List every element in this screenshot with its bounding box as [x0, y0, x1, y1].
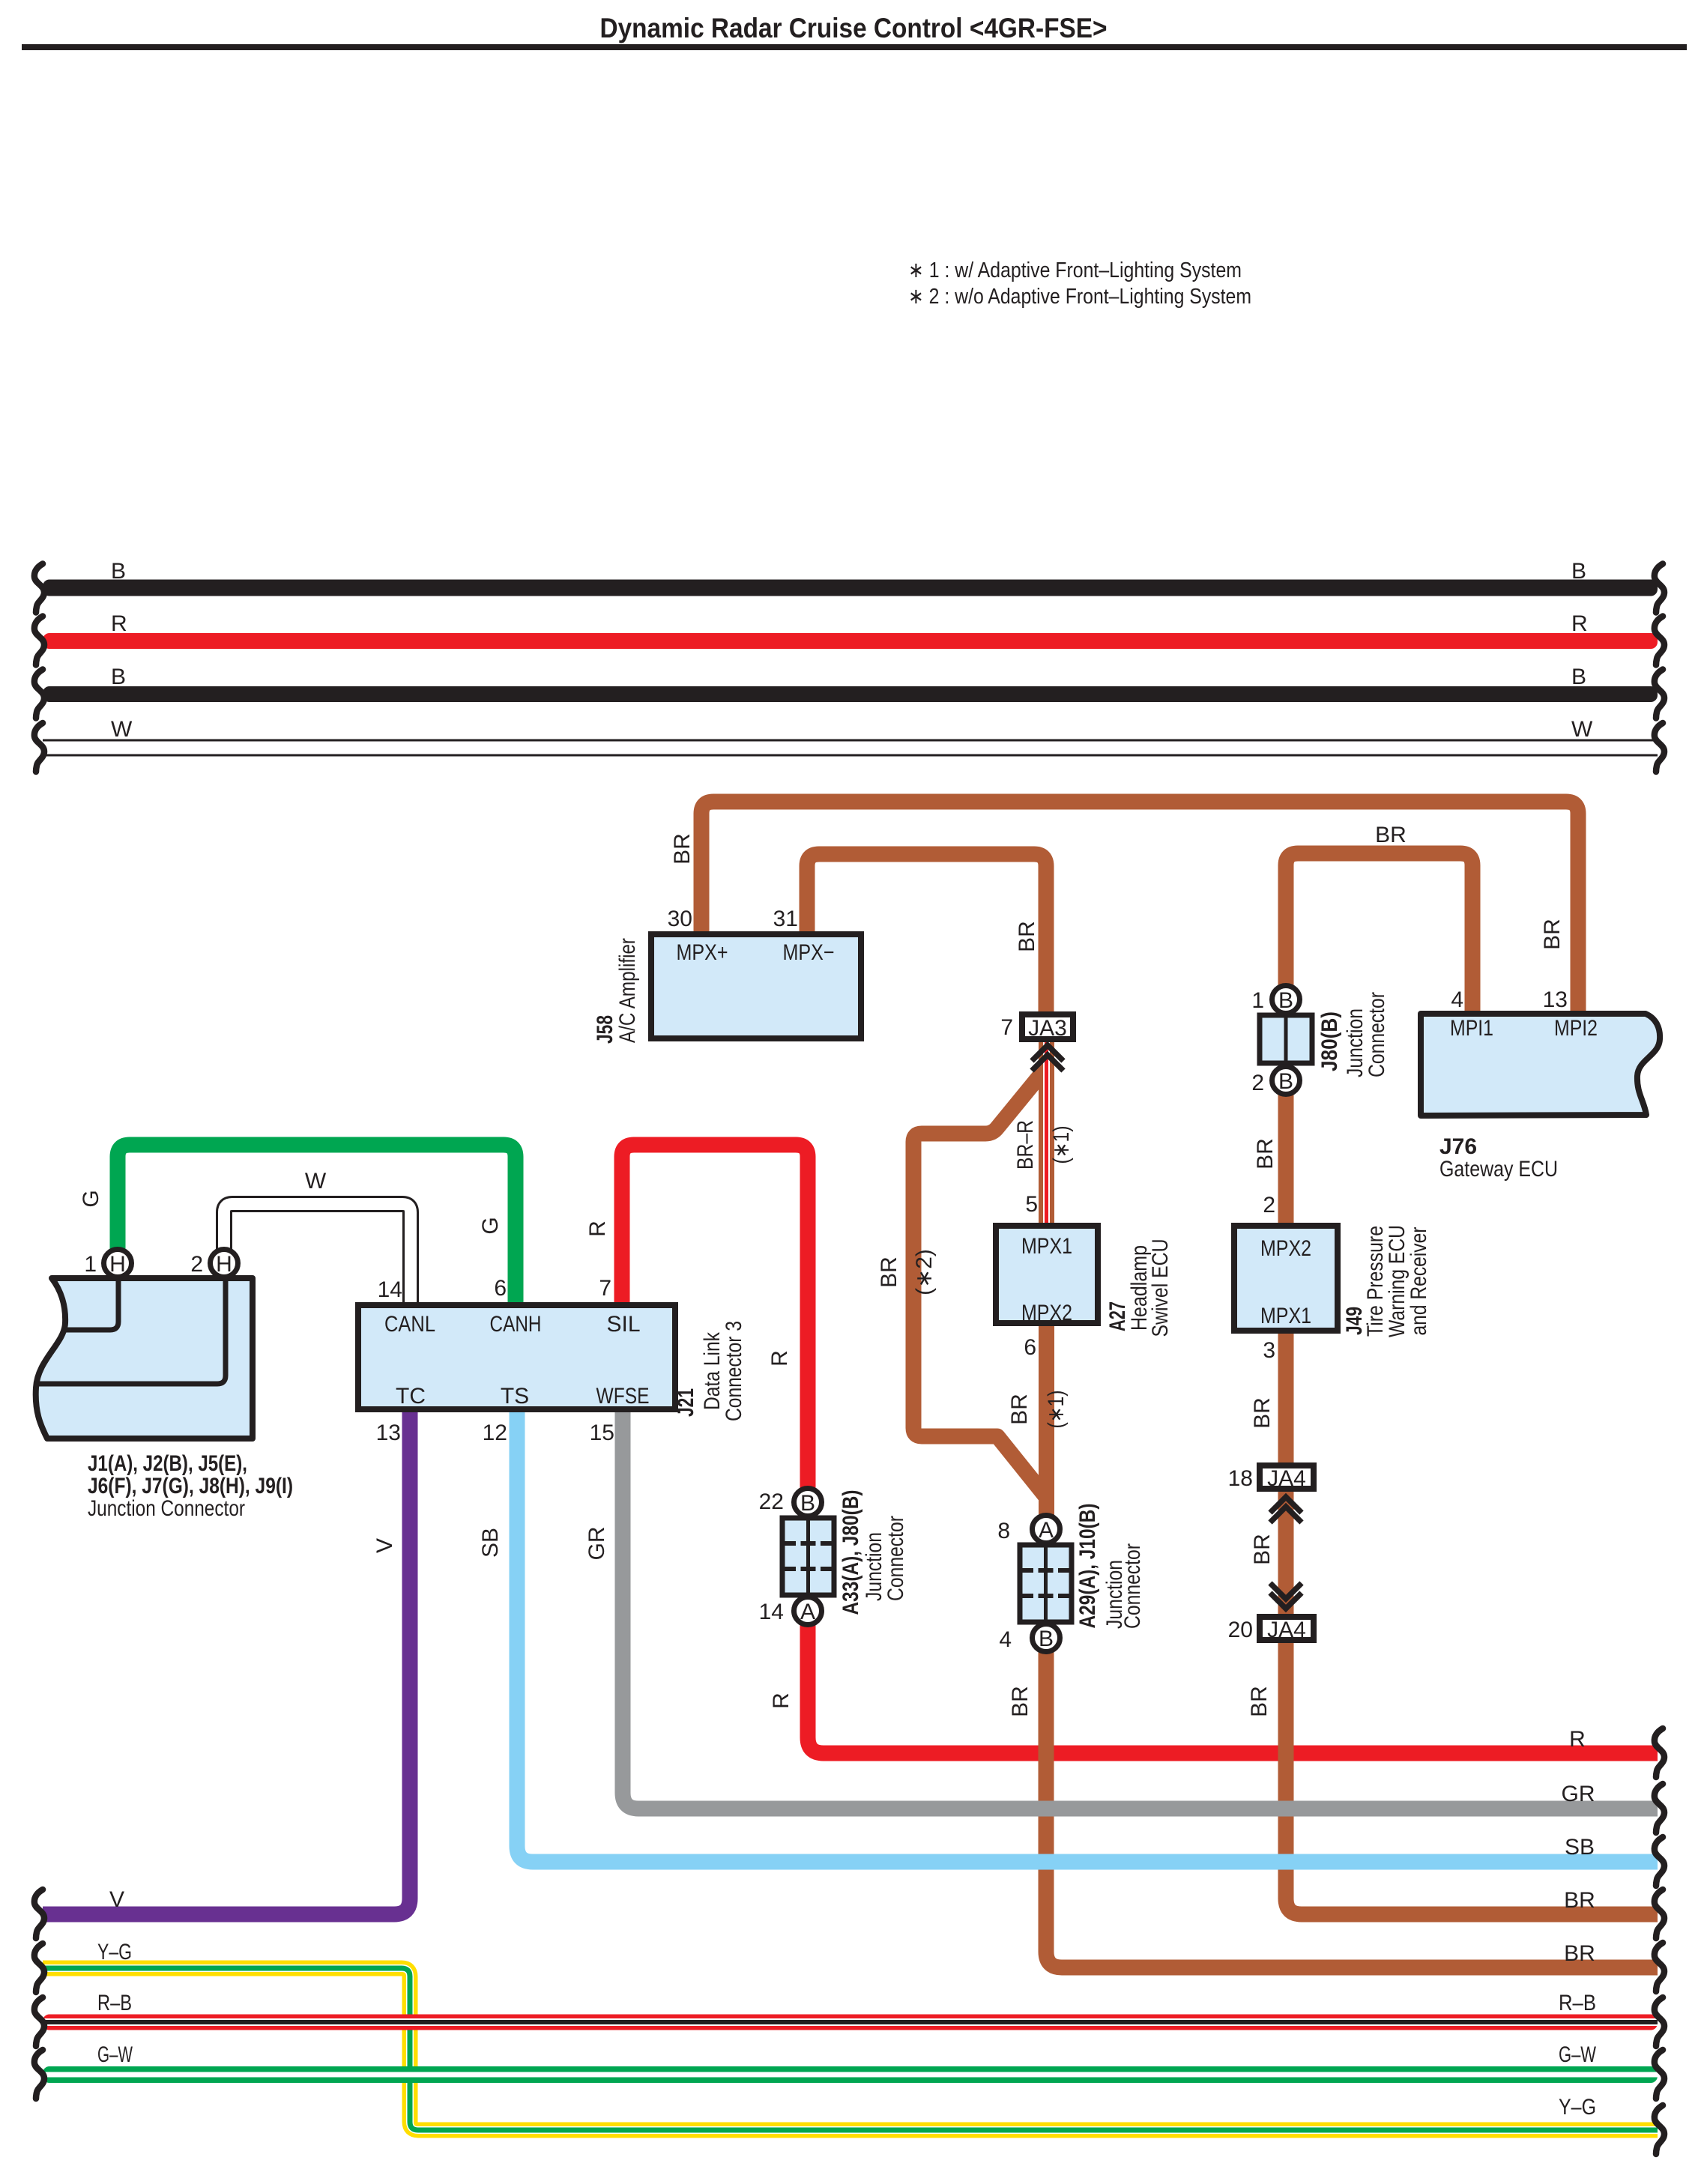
wire G J1 pin1 to J21 CANH pin6	[79, 1145, 516, 1304]
svg-text:H: H	[216, 1252, 232, 1277]
svg-text:CANH: CANH	[490, 1312, 542, 1337]
svg-text:BR: BR	[1250, 1397, 1275, 1429]
wire BR J80 pin2 to J49 MPX2 pin2	[1253, 1083, 1294, 1225]
svg-text:∗ 1 : w/ Adaptive Front–Lighti: ∗ 1 : w/ Adaptive Front–Lighting System	[908, 258, 1242, 282]
svg-text:13: 13	[1543, 987, 1568, 1012]
svg-text:B: B	[800, 1491, 815, 1516]
svg-text:B: B	[111, 559, 126, 584]
svg-text:5: 5	[1025, 1192, 1038, 1217]
wire BR JA4 20 to right edge	[1247, 1641, 1664, 1938]
svg-text:WFSE: WFSE	[596, 1384, 650, 1409]
svg-text:Connector: Connector	[1120, 1543, 1145, 1629]
wire Y-G left edge jog to right edge	[34, 1940, 1664, 2154]
svg-text:1: 1	[84, 1252, 97, 1277]
svg-text:BR: BR	[1375, 823, 1407, 847]
svg-text:MPX2: MPX2	[1260, 1236, 1311, 1261]
junction connector A33(A) J80(B)	[759, 1489, 908, 1625]
svg-text:A33(A), J80(B): A33(A), J80(B)	[839, 1490, 863, 1615]
wire BR J58 pin31 to JA3 pin7	[773, 854, 1046, 1013]
svg-text:31: 31	[773, 907, 798, 931]
wire R J21 SIL pin7 via A33 to right edge	[585, 1145, 1664, 1777]
svg-text:BR: BR	[1007, 1394, 1032, 1425]
svg-text:JA3: JA3	[1028, 1016, 1067, 1041]
svg-text:BR: BR	[877, 1256, 901, 1288]
svg-text:2: 2	[1263, 1193, 1275, 1217]
svg-text:R: R	[1569, 1727, 1586, 1752]
svg-text:W: W	[1571, 717, 1593, 742]
chevron shield JA3	[1032, 1045, 1063, 1071]
svg-text:R: R	[767, 1350, 792, 1367]
wire BR-R JA3 to A27 MPX1 pin5 (*1)	[1013, 1042, 1074, 1224]
ECU A27 Headlamp Swivel ECU	[996, 1226, 1173, 1337]
svg-text:BR: BR	[670, 833, 695, 865]
svg-text:2: 2	[1251, 1071, 1264, 1095]
svg-text:R: R	[111, 611, 127, 636]
svg-text:R: R	[585, 1220, 610, 1237]
wire B top bus 3	[34, 665, 1664, 719]
svg-text:BR: BR	[1250, 1534, 1275, 1565]
svg-text:MPX−: MPX−	[783, 940, 835, 965]
svg-text:20: 20	[1228, 1618, 1253, 1642]
svg-text:R–B: R–B	[97, 1991, 132, 2015]
chevron shield above JA4 20	[1270, 1583, 1302, 1609]
svg-text:7: 7	[599, 1276, 611, 1301]
connector J58 A/C Amplifier	[593, 934, 861, 1044]
wire BR J58 pin30 to J76 MPI2 pin13	[668, 802, 1578, 1012]
svg-text:TC: TC	[396, 1384, 426, 1409]
svg-text:R: R	[769, 1693, 794, 1709]
svg-text:W: W	[111, 717, 133, 742]
junction connector J80(B)	[1251, 986, 1389, 1096]
svg-text:TS: TS	[501, 1384, 529, 1409]
connector JA3	[1000, 1014, 1073, 1041]
svg-text:R: R	[1571, 611, 1588, 636]
wire BR A29 pin4 to right edge	[1008, 1648, 1664, 1991]
svg-text:∗ 2 : w/o Adaptive Front–Light: ∗ 2 : w/o Adaptive Front–Lighting System	[908, 285, 1251, 309]
svg-text:and Receiver: and Receiver	[1407, 1226, 1431, 1335]
svg-text:B: B	[1039, 1627, 1054, 1651]
svg-text:Junction Connector: Junction Connector	[88, 1496, 245, 1521]
wire V J21 TC pin13 to left edge	[34, 1412, 410, 1938]
svg-text:W: W	[305, 1169, 327, 1194]
svg-text:Connector 3: Connector 3	[722, 1321, 746, 1421]
svg-text:V: V	[372, 1538, 397, 1553]
svg-text:4: 4	[999, 1627, 1012, 1652]
svg-text:6: 6	[1024, 1335, 1036, 1360]
svg-text:G: G	[478, 1217, 503, 1234]
svg-text:(∗1): (∗1)	[1044, 1391, 1069, 1429]
svg-text:13: 13	[376, 1421, 401, 1445]
wire R-B full width	[34, 1991, 1664, 2046]
svg-text:(∗1): (∗1)	[1049, 1126, 1074, 1164]
svg-text:J76: J76	[1439, 1134, 1477, 1159]
svg-text:SB: SB	[478, 1528, 503, 1558]
svg-text:Connector: Connector	[883, 1516, 908, 1601]
svg-text:GR: GR	[584, 1527, 609, 1561]
svg-text:Gateway ECU: Gateway ECU	[1439, 1157, 1558, 1182]
svg-text:B: B	[1571, 559, 1586, 584]
svg-text:BR: BR	[1008, 1686, 1033, 1717]
svg-text:GR: GR	[1562, 1782, 1595, 1806]
svg-text:12: 12	[483, 1421, 507, 1445]
svg-text:3: 3	[1263, 1338, 1275, 1363]
svg-text:B: B	[1278, 988, 1293, 1013]
wire BR J80 pin1 to J76 MPI1 pin4	[1286, 823, 1472, 1012]
svg-text:MPI2: MPI2	[1554, 1016, 1598, 1041]
wire W J1 pin2 to J21 CANL pin14	[224, 1169, 411, 1305]
wire B top bus 1	[34, 559, 1664, 613]
ECU J49 Tire Pressure Warning ECU and Receiver	[1234, 1225, 1431, 1337]
svg-text:14: 14	[759, 1600, 784, 1624]
wire GR J21 WFSE pin15 to right edge	[584, 1412, 1664, 1833]
svg-text:BR: BR	[1564, 1888, 1595, 1913]
wire BR A27 MPX2 pin6 to A29 junction (*1)	[1007, 1326, 1069, 1521]
connector JA4 20	[1228, 1617, 1314, 1642]
chevron shield below JA4 18	[1270, 1497, 1302, 1522]
title rule	[22, 44, 1687, 50]
svg-text:2: 2	[190, 1252, 203, 1277]
svg-text:JA4: JA4	[1267, 1466, 1306, 1491]
svg-text:BR: BR	[1540, 919, 1565, 950]
svg-text:18: 18	[1228, 1466, 1253, 1491]
svg-text:B: B	[1278, 1069, 1293, 1094]
svg-text:R–B: R–B	[1559, 1991, 1596, 2015]
svg-text:BR: BR	[1247, 1686, 1272, 1717]
svg-text:A29(A), J10(B): A29(A), J10(B)	[1075, 1504, 1100, 1629]
svg-text:14: 14	[378, 1277, 402, 1302]
svg-text:Y–G: Y–G	[1559, 2095, 1596, 2120]
svg-text:22: 22	[759, 1489, 784, 1514]
svg-text:8: 8	[997, 1519, 1010, 1543]
svg-text:B: B	[111, 665, 126, 689]
svg-text:J1(A), J2(B), J5(E),: J1(A), J2(B), J5(E),	[88, 1451, 247, 1476]
wire BR J49 MPX1 pin3 to JA4 18	[1250, 1332, 1294, 1467]
svg-text:(∗2): (∗2)	[912, 1249, 937, 1295]
wire G-W full width	[34, 2042, 1664, 2099]
svg-text:CANL: CANL	[384, 1312, 435, 1337]
svg-text:Connector: Connector	[1365, 992, 1389, 1077]
svg-text:BR: BR	[1253, 1138, 1278, 1170]
svg-text:A/C Amplifier: A/C Amplifier	[615, 938, 640, 1043]
junction connector A29(A) J10(B)	[997, 1504, 1145, 1653]
wire BR bypass (*2)	[877, 1070, 1046, 1497]
wire W top bus 4	[34, 717, 1664, 772]
connector JA4 18	[1228, 1465, 1314, 1491]
svg-text:G: G	[79, 1190, 103, 1207]
svg-text:V: V	[109, 1887, 124, 1912]
svg-text:BR: BR	[1015, 921, 1039, 952]
svg-text:6: 6	[494, 1276, 507, 1301]
svg-text:30: 30	[668, 907, 692, 931]
wire SB J21 TS pin12 to right edge	[478, 1412, 1664, 1886]
svg-text:Swivel ECU: Swivel ECU	[1148, 1239, 1173, 1337]
svg-text:BR: BR	[1564, 1941, 1595, 1966]
connector J21 Data Link Connector 3	[358, 1305, 746, 1421]
junction connector block J1	[36, 1250, 293, 1522]
svg-text:BR–R: BR–R	[1013, 1120, 1038, 1170]
wire R top bus 2	[34, 611, 1664, 665]
svg-text:J21: J21	[674, 1388, 698, 1417]
svg-text:15: 15	[590, 1421, 614, 1445]
svg-text:7: 7	[1000, 1015, 1013, 1040]
svg-text:G–W: G–W	[97, 2042, 133, 2067]
svg-text:4: 4	[1451, 987, 1463, 1012]
svg-text:A: A	[1039, 1518, 1054, 1543]
svg-text:J58: J58	[593, 1015, 617, 1044]
svg-text:MPX1: MPX1	[1021, 1234, 1072, 1259]
svg-text:MPX1: MPX1	[1260, 1304, 1311, 1328]
svg-text:J80(B): J80(B)	[1317, 1011, 1342, 1071]
svg-text:MPX+: MPX+	[677, 940, 728, 965]
svg-text:MPX2: MPX2	[1021, 1301, 1072, 1325]
svg-text:A: A	[800, 1600, 815, 1624]
svg-text:SB: SB	[1565, 1835, 1595, 1860]
svg-text:1: 1	[1251, 988, 1264, 1013]
svg-text:MPI1: MPI1	[1450, 1016, 1493, 1041]
svg-text:JA4: JA4	[1267, 1618, 1306, 1642]
svg-text:Dynamic Radar Cruise Control <: Dynamic Radar Cruise Control <4GR-FSE>	[600, 13, 1108, 43]
svg-text:Y–G: Y–G	[97, 1940, 132, 1964]
svg-text:B: B	[1571, 665, 1586, 689]
ECU J76 Gateway ECU	[1421, 1014, 1660, 1182]
svg-text:J6(F), J7(G), J8(H), J9(I): J6(F), J7(G), J8(H), J9(I)	[88, 1474, 293, 1498]
svg-text:SIL: SIL	[606, 1312, 640, 1337]
wire BR JA4 18 to JA4 20	[1250, 1489, 1294, 1617]
svg-text:G–W: G–W	[1559, 2042, 1596, 2067]
svg-text:H: H	[109, 1252, 126, 1277]
